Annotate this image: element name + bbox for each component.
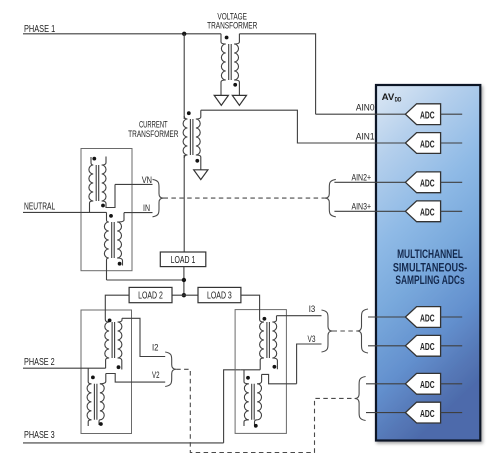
wire LOAD3 right to T7: [241, 295, 260, 319]
wire I2 output: [122, 318, 165, 356]
wire LOAD1 bottom: [183, 267, 185, 296]
transformer T5 secondary winding+leads: [118, 318, 122, 322]
wire VT secondary to AIN0: [239, 34, 315, 114]
T8 secondary polarity dot: [254, 424, 258, 428]
transformer T7 secondary winding+leads: [272, 316, 276, 322]
current transformer T2 core: [190, 119, 193, 155]
T2 secondary down-arrow: [194, 170, 208, 180]
transformer T6 core: [94, 384, 97, 420]
dashed link I3/V3 to ADC pair: [333, 330, 358, 332]
transformer T4 secondary winding+leads: [117, 213, 124, 222]
svg-text:LOAD 3: LOAD 3: [207, 290, 232, 301]
svg-text:I2: I2: [152, 342, 159, 353]
transformer T5 primary winding+leads: [105, 320, 109, 323]
svg-text:NEUTRAL: NEUTRAL: [24, 202, 55, 213]
transformer T6 secondary winding+leads: [100, 374, 106, 384]
svg-text:ADC: ADC: [420, 380, 435, 391]
transformer T8 core: [252, 384, 255, 420]
transformer T7 primary winding+leads: [260, 320, 264, 323]
svg-text:LOAD 1: LOAD 1: [171, 255, 196, 266]
op-amp-style ADC U7 symbol: [405, 373, 440, 394]
svg-text:PHASE 2: PHASE 2: [24, 357, 55, 368]
T2 secondary polarity dot: [195, 159, 199, 163]
voltage transformer T1 primary lead+winding: [221, 34, 226, 44]
transformer T8 primary winding+leads: [244, 370, 249, 384]
junction phase1/VT: [182, 32, 186, 36]
svg-text:ADC: ADC: [420, 342, 435, 353]
svg-text:I3: I3: [309, 304, 316, 315]
T1 secondary down-arrow: [232, 95, 246, 105]
op-amp-style ADC U5 symbol: [405, 307, 440, 328]
current transformer T2 secondary winding+leads: [196, 110, 201, 119]
svg-text:SAMPLING ADCs: SAMPLING ADCs: [395, 275, 464, 287]
T7 secondary polarity dot: [273, 365, 277, 369]
transformer T3 secondary winding+leads: [102, 157, 106, 166]
ADC U6 output stub: [441, 345, 463, 347]
svg-text:AIN0: AIN0: [356, 103, 375, 114]
current transformer T2 primary winding: [184, 116, 187, 119]
brace VN/IN: [153, 179, 164, 216]
T6 primary polarity dot: [91, 376, 95, 380]
ADC U8 output stub: [441, 412, 463, 414]
wire V3 output: [262, 344, 322, 384]
transformer T7 core: [267, 322, 270, 358]
dashed link I2/V2 to bottom ADC pair: [176, 369, 354, 452]
ADC U4 input wire: [334, 210, 405, 212]
wire LOAD2 left to T5: [105, 295, 129, 319]
dashed link VN/IN to AIN2/3: [164, 197, 325, 199]
wire IN output: [124, 212, 153, 214]
wire LOAD2-LOAD3 row: [172, 294, 198, 296]
load LOAD 3 box: [198, 287, 241, 302]
op-amp-style ADC U4 symbol: [405, 201, 440, 222]
T3 primary polarity dot: [92, 157, 96, 161]
transformer T3 core: [96, 165, 99, 201]
transformer T3 primary winding+leads: [91, 157, 93, 165]
T4 primary polarity dot: [109, 214, 113, 218]
op-amp-style ADC U1 symbol: [405, 104, 440, 125]
T5 secondary polarity dot: [117, 365, 121, 369]
svg-text:DD: DD: [395, 96, 402, 103]
svg-text:ADC: ADC: [420, 409, 435, 420]
ADC U6 input wire: [368, 345, 405, 347]
svg-text:LOAD 2: LOAD 2: [138, 290, 163, 301]
ADC U3 input wire: [334, 181, 405, 183]
ADC U2 input wire: [297, 142, 405, 144]
svg-text:AV: AV: [382, 92, 395, 102]
phase3 transformer group box: [235, 310, 286, 434]
svg-text:SIMULTANEOUS-: SIMULTANEOUS-: [393, 263, 467, 275]
ADC U2 output stub: [441, 142, 463, 144]
ADC U1 input wire: [316, 113, 406, 115]
svg-text:MULTICHANNEL: MULTICHANNEL: [397, 249, 463, 261]
transformer T4 core: [112, 222, 115, 258]
wire NEUTRAL horizontal: [23, 211, 107, 213]
op-amp-style ADC U2 symbol: [405, 133, 440, 154]
T2 primary polarity dot: [187, 111, 191, 115]
brace I3/V3 ADC pair: [357, 309, 368, 353]
ADC U7 output stub: [441, 383, 463, 385]
svg-text:V3: V3: [308, 334, 316, 345]
T5 primary polarity dot: [108, 319, 112, 323]
T1 primary down-arrow: [214, 95, 228, 105]
junction load2/load3: [182, 293, 186, 297]
op-amp-style ADC U6 symbol: [405, 335, 440, 356]
svg-text:V2: V2: [152, 370, 160, 381]
load LOAD 1 box: [160, 252, 206, 267]
brace I2/V2: [165, 352, 176, 387]
T3 secondary polarity dot: [101, 204, 105, 208]
wire T7 bottom to phase3 junction: [241, 369, 260, 371]
phase2 transformer group box: [81, 310, 132, 434]
svg-text:AIN2+: AIN2+: [352, 172, 372, 183]
voltage transformer T1 secondary winding+leads: [234, 34, 239, 44]
svg-text:VN: VN: [142, 175, 152, 186]
wire T2 secondary to AIN1: [201, 110, 406, 143]
svg-text:IN: IN: [143, 203, 150, 214]
wire PHASE 1 horizontal: [23, 33, 221, 35]
ADC U4 output stub: [441, 210, 463, 212]
transformer T5 core: [112, 322, 115, 358]
T4 secondary polarity dot: [118, 262, 122, 266]
wire phase1 main vertical drop: [183, 34, 185, 119]
transformer T4 primary winding+leads: [107, 212, 109, 222]
ADC U8 input wire: [366, 412, 405, 414]
transformer T6 primary winding+leads: [88, 368, 91, 384]
svg-text:ADC: ADC: [420, 139, 435, 150]
ADC U3 output stub: [441, 181, 463, 183]
wire VN output: [115, 183, 153, 185]
op-amp-style ADC U8 symbol: [405, 402, 440, 423]
ADC U7 input wire: [366, 383, 405, 385]
T8 primary polarity dot: [246, 376, 250, 380]
brace I3/V3: [322, 310, 333, 352]
T7 primary polarity dot: [263, 317, 267, 321]
ADC U5 input wire: [368, 316, 405, 318]
op-amp-style ADC U3 symbol: [405, 172, 440, 193]
T6 secondary polarity dot: [99, 422, 103, 426]
wire PHASE 3 horizontal: [23, 442, 224, 444]
svg-text:PHASE 1: PHASE 1: [24, 24, 55, 35]
brace bottom ADC pair: [355, 377, 366, 421]
load LOAD 2 box: [129, 287, 172, 302]
svg-text:ADC: ADC: [420, 111, 435, 122]
svg-text:AIN1: AIN1: [356, 131, 375, 142]
svg-text:ADC: ADC: [420, 208, 435, 219]
T1 primary polarity dot: [225, 36, 229, 40]
voltage transformer T1 core: [229, 44, 232, 80]
transformer T8 secondary winding+leads: [257, 374, 261, 383]
ADC U5 output stub: [441, 316, 463, 318]
svg-text:TRANSFORMER: TRANSFORMER: [207, 21, 257, 32]
svg-text:ADC: ADC: [420, 313, 435, 324]
svg-text:TRANSFORMER: TRANSFORMER: [128, 129, 178, 140]
T1 secondary polarity dot: [233, 83, 237, 87]
wire T4 bottom to load junction: [107, 279, 184, 281]
brace AIN2+/AIN3+: [325, 179, 336, 216]
svg-text:AIN3+: AIN3+: [352, 201, 372, 212]
neutral transformer group box: [81, 149, 132, 271]
wire phase3 riser: [224, 370, 241, 443]
ADC U1 output stub: [441, 113, 463, 115]
svg-text:PHASE 3: PHASE 3: [24, 430, 55, 441]
wire PHASE 2 horizontal: [23, 367, 106, 369]
svg-text:ADC: ADC: [420, 179, 435, 190]
wire V2 output: [106, 374, 165, 383]
wire main vertical to LOAD 1: [183, 155, 185, 252]
junction load1/neutral-ct: [182, 278, 186, 282]
wire I3 output: [277, 315, 322, 317]
